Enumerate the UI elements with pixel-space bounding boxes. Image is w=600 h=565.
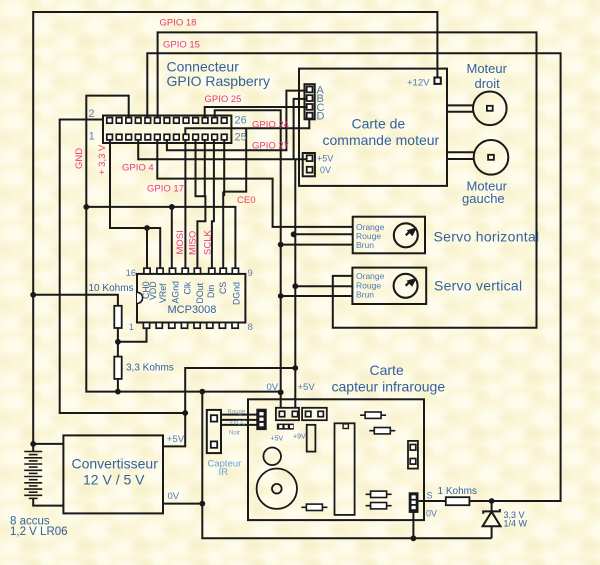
resistor R3 1 Kohms — [446, 497, 470, 505]
wire motor droit pair — [447, 105, 474, 111]
wire motor gauche pair — [447, 152, 474, 159]
svg-text:Carte: Carte — [370, 362, 404, 378]
jumper +5V/+9V — [277, 424, 294, 430]
wire 0V rail riser to converter and bottom rail — [202, 392, 491, 539]
wire CS drop from GPIO — [223, 140, 224, 268]
wire GPIO input net via right side to IR sensor S — [147, 53, 560, 501]
svg-text:DOut: DOut — [195, 282, 205, 303]
wire GPIO 15 net to servo vertical orange — [158, 32, 537, 327]
svg-text:GPIO 17: GPIO 17 — [147, 184, 184, 195]
servo horizontal module — [353, 217, 425, 254]
wire +5V raspberry pin2 branch to GPIO connector — [60, 120, 186, 414]
resistor on IR board — [366, 493, 392, 495]
node divider bottom junction — [115, 389, 121, 395]
svg-text:0V: 0V — [168, 491, 180, 502]
board convertisseur 12V/5V — [63, 435, 163, 513]
resistor on IR board — [301, 506, 327, 508]
U1 notch — [137, 292, 143, 303]
connector 2pin right IR board — [408, 441, 418, 469]
wire capteur IR noir — [221, 424, 257, 426]
svg-text:+9V: +9V — [293, 434, 306, 441]
svg-text:Brun: Brun — [356, 289, 374, 299]
svg-text:capteur infrarouge: capteur infrarouge — [332, 379, 446, 395]
connector ABCD — [305, 84, 315, 119]
svg-text:16: 16 — [126, 268, 137, 279]
svg-text:+5V: +5V — [167, 434, 185, 445]
wire servo horizontal rouge +5V — [294, 233, 353, 235]
svg-text:Servo vertical: Servo vertical — [434, 278, 522, 294]
wire battery + to converter — [33, 443, 63, 445]
svg-text:+5V: +5V — [271, 435, 284, 442]
svg-text:+ 3,3 V: + 3,3 V — [97, 144, 108, 175]
svg-text:Din: Din — [206, 285, 216, 298]
svg-text:AGnd: AGnd — [171, 281, 181, 304]
wire 10 Kohms top to +12V bus — [33, 295, 118, 306]
wire servo vertical rouge +5V — [295, 285, 352, 287]
svg-text:CS: CS — [218, 282, 228, 294]
servo horizontal dial — [394, 223, 418, 247]
connector J1 GPIO Raspberry — [103, 116, 231, 144]
svg-text:+5V: +5V — [298, 382, 316, 393]
wire zener bottom lead — [491, 526, 493, 538]
svg-text:MISO: MISO — [188, 231, 199, 255]
svg-text:commande moteur: commande moteur — [323, 132, 440, 148]
motor M2 moteur gauche — [474, 140, 509, 175]
node AGnd tap — [169, 204, 175, 210]
svg-text:S: S — [427, 490, 433, 500]
node 0V converter junction — [199, 501, 205, 507]
svg-text:GPIO Raspberry: GPIO Raspberry — [167, 73, 270, 89]
connector J1 pins row 2 — [107, 118, 113, 124]
node servo H brun junction — [278, 242, 284, 248]
wire servo vertical brun 0V — [281, 295, 353, 297]
wire zener top lead — [491, 501, 493, 511]
wire capteur IR rouge — [221, 414, 257, 416]
wire IR connector 0V drop to bottom rail — [412, 511, 414, 538]
wire +12V battery to motor board (net +12V) — [33, 12, 437, 444]
node 0V riser junction — [199, 389, 205, 395]
svg-text:GPIO 24: GPIO 24 — [252, 120, 289, 131]
wire +3,3V from GPIO pin1 to MCP3008 VDD/VRef — [110, 140, 160, 268]
svg-text:DGnd: DGnd — [232, 282, 242, 305]
resistor on IR board — [366, 505, 392, 507]
wire GPIO4 to motor B / +5V pin — [138, 140, 307, 160]
svg-text:0V: 0V — [320, 165, 331, 175]
connector IR input pin holes — [259, 412, 263, 415]
wire battery top lead — [32, 444, 34, 452]
wire AGnd drop — [171, 207, 173, 268]
svg-text:2: 2 — [88, 108, 94, 120]
IC U2 regulator — [307, 425, 316, 452]
svg-text:GND: GND — [74, 148, 85, 169]
node +5V riser junction — [182, 410, 188, 416]
svg-text:GPIO 4: GPIO 4 — [122, 163, 154, 174]
connector +5V/0V pins — [307, 155, 313, 161]
zener diode D1 3,3V — [483, 509, 500, 514]
wire MOSI drop to MCP3008 Din — [212, 140, 214, 268]
connector IR input 3 pins — [257, 410, 266, 430]
svg-text:CE0: CE0 — [237, 195, 255, 206]
resistor R1 10 Kohms — [114, 306, 121, 328]
svg-text:Moteur: Moteur — [467, 61, 508, 76]
wire motor pin A link — [167, 91, 307, 151]
connector J1 pins row 1 — [107, 134, 113, 140]
svg-text:1,2 V LR06: 1,2 V LR06 — [10, 526, 68, 538]
resistor on IR board — [369, 430, 395, 432]
connector ABCD pins — [307, 87, 313, 93]
buzzer small circle — [263, 448, 281, 466]
svg-text:GPIO 25: GPIO 25 — [205, 94, 242, 105]
wire motor pin B riser — [294, 99, 307, 159]
connector aux IR board — [302, 408, 327, 420]
svg-text:MOSI: MOSI — [175, 230, 186, 254]
svg-text:droit: droit — [475, 76, 501, 91]
wire SCLK drop to MCP3008 Clk — [184, 140, 186, 268]
svg-text:Rouge: Rouge — [228, 409, 246, 415]
node +5V IR junction — [292, 365, 298, 371]
wire +5V servo bus to IR board — [294, 159, 296, 408]
svg-text:9: 9 — [248, 268, 253, 279]
node divider mid junction — [115, 339, 121, 345]
svg-text:VRef: VRef — [158, 283, 168, 303]
node battery + junction — [30, 441, 36, 447]
wire GPIO 24 to motor pin D — [185, 119, 309, 134]
svg-text:Convertisseur: Convertisseur — [72, 456, 159, 472]
wire divider to MCP3008 pin1 CH0 — [118, 328, 147, 342]
node VDD tap — [144, 225, 150, 231]
svg-text:GPIO 15: GPIO 15 — [163, 40, 200, 51]
node 0V IR junction — [278, 389, 284, 395]
connector S/0V IR board — [410, 493, 418, 512]
speaker big circle — [257, 469, 297, 509]
svg-text:Servo horizontal: Servo horizontal — [434, 229, 540, 245]
wire servo horizontal brun 0V — [281, 244, 353, 246]
svg-text:MCP3008: MCP3008 — [168, 304, 217, 316]
terminal +12V — [434, 78, 440, 84]
svg-text:Carte de: Carte de — [352, 116, 406, 132]
wire 0V servo bus from GPIO top pin — [215, 110, 281, 408]
svg-text:D: D — [317, 111, 325, 123]
board carte de commande moteur — [299, 69, 447, 186]
node 0V bottom junction — [411, 535, 417, 541]
sensor capteur IR — [207, 410, 221, 453]
IC U3 infrared decoder — [335, 423, 355, 515]
wire 0V converter output — [163, 503, 202, 505]
svg-text:Clk: Clk — [182, 281, 192, 294]
wire battery bottom lead to converter — [33, 499, 63, 506]
svg-text:IR: IR — [219, 467, 229, 478]
wire 3,3 Kohms bottom to 0V rail — [117, 379, 119, 392]
wire 1 Kohms to node S — [469, 500, 491, 502]
svg-text:25: 25 — [235, 132, 247, 144]
svg-text:+5V: +5V — [317, 154, 333, 164]
svg-text:Brun: Brun — [356, 240, 374, 250]
node GND rail tap — [83, 204, 89, 210]
connector +5V/0V motor board — [303, 153, 315, 176]
svg-text:VDD: VDD — [148, 281, 158, 300]
node +12V/10K junction — [30, 292, 36, 298]
svg-text:Noir: Noir — [229, 430, 240, 436]
wire MISO jog to MCP3008 DOut — [196, 140, 206, 268]
svg-text:1: 1 — [129, 322, 134, 333]
wire MISO second drop — [204, 140, 206, 196]
wire GND bus from GPIO pin6 down to 0V rail — [86, 96, 281, 392]
wire GND rail to MCP3008 AGnd DGnd — [86, 207, 236, 268]
battery 8 accus 1,2V LR06 — [24, 451, 42, 453]
svg-text:1: 1 — [89, 131, 95, 143]
U3 notch mark — [343, 424, 348, 429]
svg-text:SCLK: SCLK — [203, 230, 214, 255]
wire IR sensor S output to 1 Kohms — [419, 500, 446, 502]
motor M1 moteur droit — [473, 92, 507, 126]
svg-text:gauche: gauche — [462, 191, 505, 206]
svg-text:26: 26 — [235, 115, 247, 127]
connector S/0V pin holes — [412, 495, 416, 498]
wire GPIO 17 to servo horizontal orange — [157, 140, 352, 227]
wire CE0 branch to MCP3008 CS — [224, 128, 246, 196]
svg-text:12 V / 5 V: 12 V / 5 V — [83, 472, 145, 488]
svg-text:0V: 0V — [267, 382, 279, 393]
node S zener junction — [489, 498, 495, 504]
IC U1 MCP3008 — [137, 274, 245, 323]
wire VDD drop from 3,3V rail — [146, 228, 148, 268]
svg-text:+12V: +12V — [407, 77, 430, 88]
svg-text:GPIO 27: GPIO 27 — [252, 141, 289, 152]
svg-text:3,3 Kohms: 3,3 Kohms — [126, 362, 174, 373]
U1 pins 16-9 top row — [144, 268, 150, 274]
board carte capteur infrarouge — [248, 399, 424, 520]
servo vertical dial — [394, 274, 418, 298]
U1 pins 1-8 bottom row — [143, 323, 149, 329]
svg-text:8: 8 — [248, 322, 253, 333]
svg-text:+VCC: +VCC — [230, 420, 247, 426]
svg-text:1/4 W: 1/4 W — [504, 518, 528, 528]
wire divider middle node — [117, 328, 119, 357]
wire capteur IR +VCC — [221, 419, 257, 421]
wire GPIO 25 to motor pin C — [205, 107, 307, 118]
servo vertical module — [352, 268, 426, 304]
resistor R2 3,3 Kohms — [114, 357, 121, 379]
node servo V rouge junction — [292, 283, 298, 289]
svg-text:GPIO 18: GPIO 18 — [160, 18, 197, 29]
wire +5V riser from converter to IR board rail — [163, 368, 295, 446]
resistor on IR board — [360, 414, 386, 416]
svg-text:10 Kohms: 10 Kohms — [89, 283, 134, 294]
node servo V brun junction — [278, 293, 284, 299]
svg-text:1 Kohms: 1 Kohms — [438, 486, 477, 497]
svg-text:0V: 0V — [426, 509, 437, 519]
connector 0V/+5V IR board — [276, 408, 299, 420]
node servo H rouge junction — [291, 231, 297, 237]
